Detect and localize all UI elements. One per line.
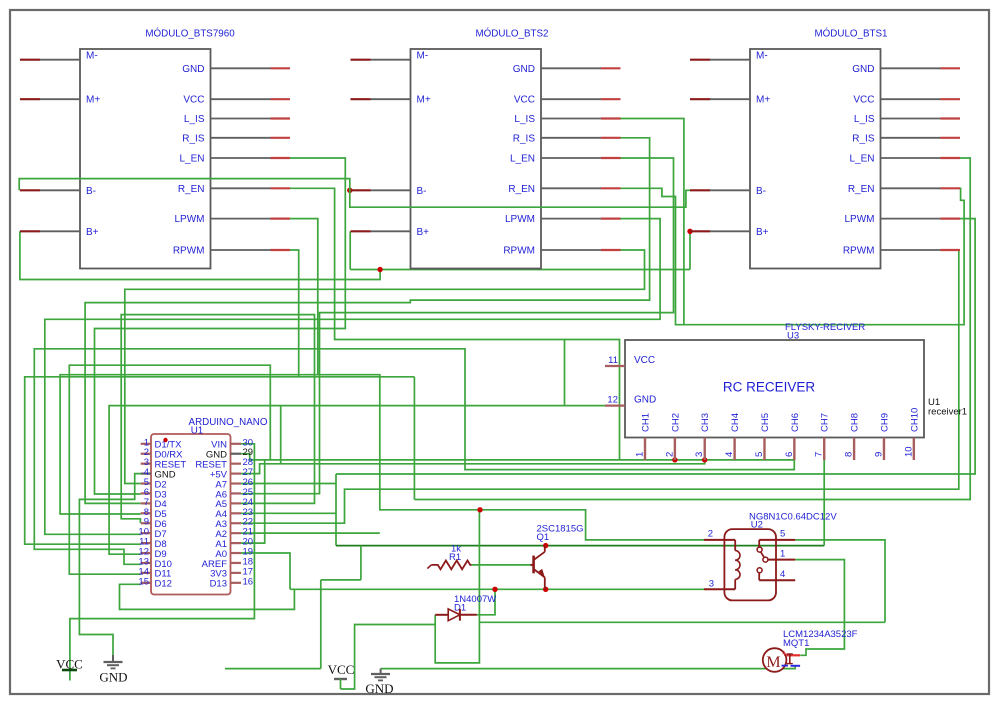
svg-text:VCC: VCC — [183, 95, 204, 106]
svg-text:GND: GND — [513, 64, 535, 75]
svg-text:GND: GND — [182, 64, 204, 75]
svg-text:CH7: CH7 — [820, 413, 831, 432]
svg-text:8: 8 — [844, 452, 855, 457]
svg-text:B-: B- — [86, 186, 96, 197]
svg-text:R1: R1 — [449, 552, 461, 563]
svg-text:VCC: VCC — [514, 95, 535, 106]
svg-text:D13: D13 — [210, 579, 227, 590]
svg-text:RPWM: RPWM — [843, 246, 875, 257]
svg-text:9: 9 — [873, 452, 884, 457]
svg-text:Q1: Q1 — [537, 532, 550, 543]
svg-text:R_IS: R_IS — [182, 133, 205, 144]
svg-text:receiver1: receiver1 — [928, 407, 967, 418]
svg-text:GND: GND — [634, 395, 656, 406]
svg-text:+: + — [782, 649, 787, 659]
svg-text:L_IS: L_IS — [184, 114, 205, 125]
svg-text:GND: GND — [365, 681, 393, 696]
svg-text:R_EN: R_EN — [508, 184, 535, 195]
svg-text:CH6: CH6 — [790, 413, 801, 432]
svg-text:LPWM: LPWM — [175, 214, 205, 225]
svg-text:GND: GND — [99, 670, 127, 685]
svg-text:CH4: CH4 — [730, 413, 741, 432]
svg-text:B+: B+ — [86, 227, 99, 238]
svg-text:L_EN: L_EN — [510, 154, 535, 165]
svg-text:U1: U1 — [191, 426, 204, 437]
svg-text:15: 15 — [138, 576, 149, 587]
svg-text:12: 12 — [607, 395, 618, 406]
svg-text:MÓDULO_BTS2: MÓDULO_BTS2 — [476, 29, 549, 40]
svg-text:M+: M+ — [417, 95, 431, 106]
svg-text:M: M — [766, 654, 780, 671]
svg-text:CH10: CH10 — [909, 408, 920, 432]
svg-text:GND: GND — [852, 64, 874, 75]
svg-text:CH3: CH3 — [700, 413, 711, 432]
svg-text:1: 1 — [635, 452, 646, 457]
svg-text:M+: M+ — [86, 95, 100, 106]
svg-text:2: 2 — [708, 529, 713, 540]
svg-text:R_EN: R_EN — [848, 184, 875, 195]
svg-text:MQT1: MQT1 — [783, 638, 809, 649]
svg-text:D12: D12 — [155, 579, 172, 590]
svg-text:RC RECEIVER: RC RECEIVER — [723, 380, 816, 395]
svg-text:RPWM: RPWM — [173, 246, 205, 257]
svg-text:MÓDULO_BTS1: MÓDULO_BTS1 — [815, 29, 888, 40]
svg-text:CH8: CH8 — [850, 413, 861, 432]
svg-text:VCC: VCC — [634, 355, 655, 366]
svg-text:5: 5 — [780, 529, 785, 540]
svg-text:4: 4 — [724, 452, 735, 457]
svg-text:5: 5 — [754, 452, 765, 457]
svg-text:CH1: CH1 — [641, 413, 652, 432]
svg-text:L_IS: L_IS — [854, 114, 875, 125]
svg-text:M-: M- — [756, 50, 768, 61]
svg-text:10: 10 — [903, 446, 914, 457]
svg-text:RPWM: RPWM — [503, 246, 535, 257]
svg-text:MÓDULO_BTS7960: MÓDULO_BTS7960 — [145, 29, 235, 40]
svg-text:LPWM: LPWM — [845, 214, 875, 225]
svg-text:6: 6 — [784, 452, 795, 457]
svg-text:16: 16 — [243, 576, 254, 587]
svg-text:M+: M+ — [756, 95, 770, 106]
svg-text:3: 3 — [694, 452, 705, 457]
svg-text:1: 1 — [780, 549, 785, 560]
svg-text:R_EN: R_EN — [178, 184, 205, 195]
svg-text:M-: M- — [86, 50, 98, 61]
svg-text:2: 2 — [664, 452, 675, 457]
svg-text:VCC: VCC — [853, 95, 874, 106]
svg-text:LPWM: LPWM — [505, 214, 535, 225]
svg-text:R_IS: R_IS — [852, 133, 875, 144]
svg-text:CH2: CH2 — [670, 413, 681, 432]
svg-text:11: 11 — [608, 355, 618, 366]
svg-text:B+: B+ — [417, 227, 430, 238]
svg-text:7: 7 — [814, 452, 825, 457]
svg-text:B-: B- — [756, 186, 766, 197]
svg-text:CH9: CH9 — [879, 413, 890, 432]
svg-text:B-: B- — [417, 186, 427, 197]
svg-text:4: 4 — [780, 569, 785, 580]
svg-text:U3: U3 — [787, 331, 799, 342]
svg-text:M-: M- — [417, 50, 429, 61]
svg-text:B+: B+ — [756, 227, 769, 238]
svg-text:CH5: CH5 — [760, 413, 771, 432]
svg-text:L_EN: L_EN — [179, 154, 204, 165]
svg-text:L_IS: L_IS — [514, 114, 535, 125]
svg-text:3: 3 — [709, 579, 714, 590]
svg-text:L_EN: L_EN — [849, 154, 874, 165]
svg-text:R_IS: R_IS — [513, 133, 536, 144]
svg-text:VCC: VCC — [328, 662, 355, 677]
